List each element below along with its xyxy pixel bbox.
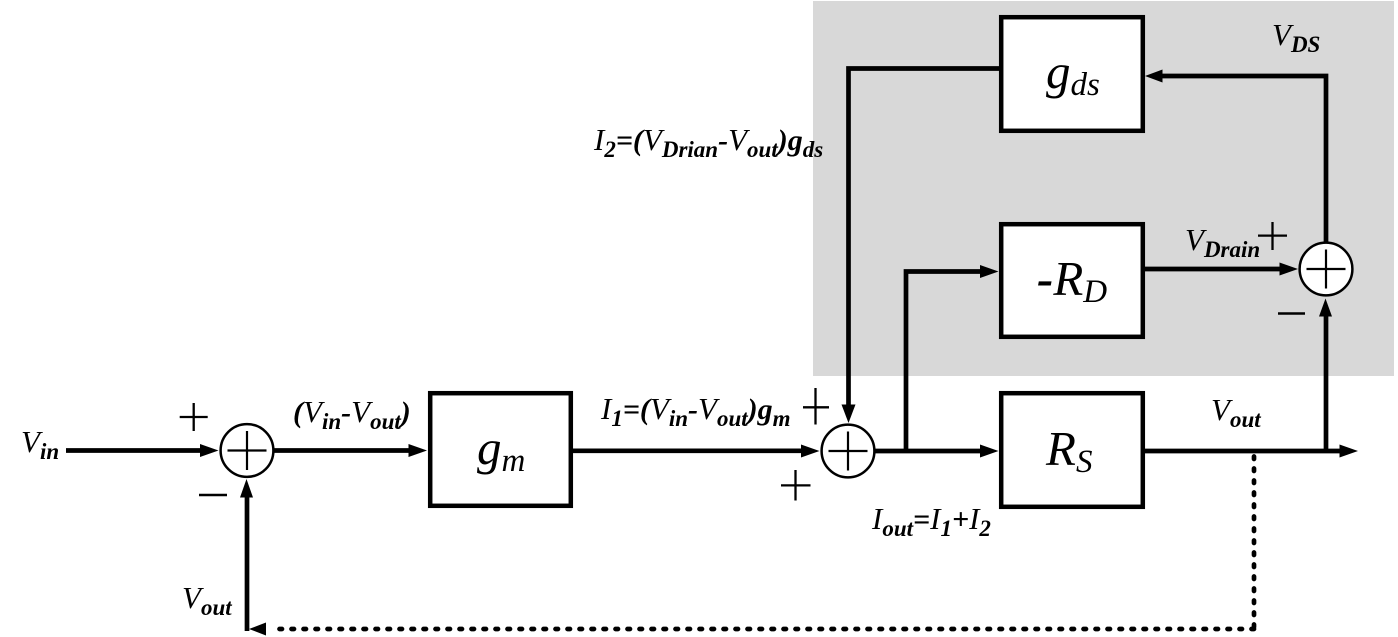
wire left sum to gm — [275, 448, 417, 453]
block gds — [1001, 17, 1143, 131]
arrowhead into gds right edge — [1145, 70, 1163, 83]
block -RD — [1001, 224, 1143, 337]
dashed feedback horizontal — [272, 627, 1254, 632]
minus sign at right sum — [1278, 312, 1305, 315]
summing junction left — [221, 424, 274, 477]
plus sign below middle sum — [781, 484, 811, 486]
wire gm to middle sum — [573, 448, 808, 453]
arrowhead output end — [1340, 445, 1359, 458]
block RS — [1001, 393, 1143, 507]
plus sign at left sum — [180, 416, 208, 418]
arrowhead into RS — [980, 445, 999, 458]
wire VDS from right sum top to gds input — [1158, 76, 1326, 242]
plus sign above middle sum — [803, 406, 829, 408]
dashed feedback vertical from output — [1252, 457, 1257, 630]
arrowhead into right sum left — [1280, 263, 1299, 276]
gray shaded region — [813, 1, 1394, 376]
svg-text:I1=(Vin-Vout)gm: I1=(Vin-Vout)gm — [600, 391, 791, 431]
arrowhead into gm — [409, 444, 428, 457]
wire RS to output — [1145, 449, 1345, 454]
wire Vin to left sum — [66, 448, 206, 453]
arrowhead into -RD — [980, 265, 999, 278]
wire junction up to -RD input — [906, 272, 986, 452]
wire gds output down to middle sum — [849, 69, 1001, 411]
arrowhead up into left sum bottom — [240, 479, 253, 498]
summing junction middle — [822, 425, 875, 478]
arrowhead into middle sum — [801, 445, 820, 458]
minus sign at left sum — [199, 494, 227, 497]
arrowhead left at dashed line end — [249, 623, 266, 636]
arrowhead down into middle sum top — [842, 405, 856, 424]
block gm — [430, 393, 571, 506]
arrowhead into left sum — [200, 444, 219, 457]
wire middle sum to RS — [876, 449, 988, 454]
wire Vout up into right sum minus input — [1324, 309, 1329, 451]
plus sign at right sum — [1258, 234, 1287, 236]
summing junction right — [1300, 243, 1353, 296]
wire -RD output to right sum — [1145, 267, 1286, 272]
wire left sum feedback vertical — [245, 490, 250, 631]
arrowhead up into right sum bottom — [1319, 299, 1332, 317]
